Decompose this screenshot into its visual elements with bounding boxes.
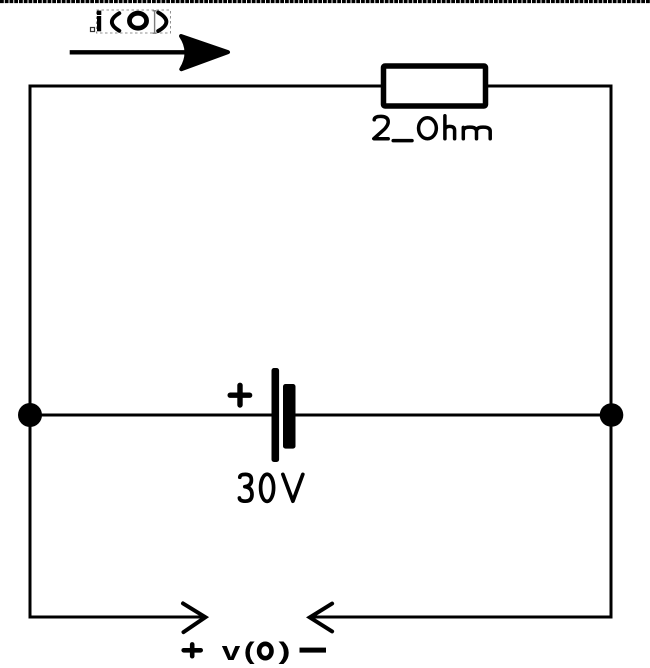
node left junction dot <box>18 403 42 427</box>
svg-text:v: v <box>222 638 241 667</box>
battery value label 30V <box>239 474 302 501</box>
top border dashed bar <box>0 0 650 3</box>
label i(0) text cursor <box>153 11 157 34</box>
wire right vertical <box>610 86 613 617</box>
resistor R1 body <box>384 66 486 106</box>
label v(0) minus symbol <box>300 648 327 653</box>
bottom-left arrow head (points right) <box>183 603 205 632</box>
wire bottom left segment <box>29 616 204 619</box>
node right junction dot <box>600 403 624 427</box>
resistor value label 2_Ohm <box>374 116 490 141</box>
current arrow i(0) shaft <box>70 50 186 54</box>
label v(0) plus symbol <box>184 644 201 656</box>
current arrow i(0) head <box>181 36 228 69</box>
bottom-right arrow head (points left) <box>310 604 332 632</box>
label i(0) handle <box>91 28 95 32</box>
svg-text:(: ( <box>244 638 255 665</box>
wire middle left (node to battery) <box>30 414 272 417</box>
wire top right segment <box>488 85 613 88</box>
wire top left segment <box>29 85 382 88</box>
wire middle right (battery to node) <box>296 414 612 417</box>
label i(0) selection box <box>97 10 171 33</box>
battery V1 plus sign <box>230 385 249 405</box>
battery V1 long plate (+) <box>272 368 280 462</box>
battery V1 short plate (-) <box>283 384 296 449</box>
svg-text:): ) <box>279 638 291 665</box>
label v(0) text <box>222 638 291 667</box>
wire bottom right segment <box>313 616 613 619</box>
wire left vertical <box>29 86 32 617</box>
label i(0) text <box>97 11 166 32</box>
